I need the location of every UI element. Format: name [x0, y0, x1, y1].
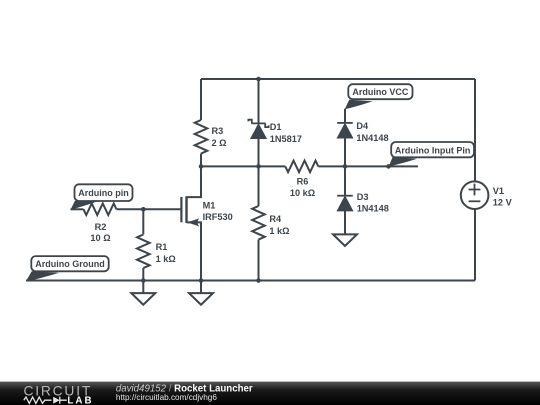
- svg-text:R6: R6: [297, 176, 309, 186]
- wire left rail top (R3 top lead): [200, 79, 202, 120]
- wire right rail top: [474, 79, 476, 181]
- svg-text:1N4148: 1N4148: [357, 204, 389, 214]
- junction dot M1 source bottom: [199, 278, 204, 283]
- CircuitLab logo diode triangle: [53, 397, 60, 404]
- wire D3 to ground: [344, 211, 346, 235]
- junction dot gate row: [141, 207, 146, 212]
- junction dot D3 D4 middle: [343, 164, 348, 169]
- resistor R3: [195, 120, 208, 154]
- CircuitLab logo resistor zigzag and diode: [24, 397, 67, 404]
- junction dot input pin flag: [386, 164, 391, 169]
- net flag Arduino Input Pin: [389, 142, 474, 166]
- wire D4 flag lead: [344, 109, 346, 123]
- resistor R6: [285, 161, 318, 173]
- voltage source V1 minus sign: [469, 200, 481, 202]
- svg-text:1N5817: 1N5817: [270, 134, 302, 144]
- diode D1 schottky cathode bar: [248, 120, 268, 127]
- wire R4 bottom lead: [258, 240, 260, 281]
- junction dot R1 bottom: [141, 278, 146, 283]
- svg-text:Arduino pin: Arduino pin: [78, 188, 129, 198]
- wire right rail bottom: [474, 209, 476, 281]
- svg-text:IRF530: IRF530: [203, 212, 233, 222]
- transistor M1 channel bar: [185, 196, 187, 223]
- svg-text:R1: R1: [156, 242, 168, 252]
- wire R1 top lead: [142, 209, 144, 234]
- svg-text:1 kΩ: 1 kΩ: [156, 254, 176, 264]
- diode D3 cathode bar: [337, 195, 353, 197]
- ground symbol (M1 source): [189, 281, 213, 305]
- net flag Arduino VCC: [345, 84, 413, 109]
- svg-text:R2: R2: [95, 222, 107, 232]
- svg-text:D1: D1: [270, 122, 282, 132]
- wire M1 source to bottom: [187, 222, 202, 280]
- ground symbol (R1 branch): [131, 281, 155, 305]
- transistor Q M1 gate bar: [180, 197, 182, 222]
- wire middle row right of R6: [318, 165, 418, 167]
- wire D3 top lead: [344, 166, 346, 195]
- wire R4 top lead: [258, 166, 260, 206]
- svg-text:D3: D3: [357, 192, 369, 202]
- footer bar: [0, 382, 540, 405]
- wire gate row right of R2: [117, 208, 182, 210]
- junction dot R4 bottom: [256, 278, 261, 283]
- transistor M1 source arrow: [187, 218, 199, 226]
- svg-text:10 kΩ: 10 kΩ: [290, 188, 315, 198]
- wire D1 bottom lead: [258, 139, 260, 167]
- svg-text:M1: M1: [203, 200, 216, 210]
- svg-text:Arduino Ground: Arduino Ground: [35, 259, 105, 269]
- resistor R4: [252, 206, 265, 240]
- diode D1 triangle: [251, 125, 266, 139]
- svg-text:1N4148: 1N4148: [356, 133, 388, 143]
- net flag Arduino pin: [71, 184, 133, 210]
- wire left rail to M1 drain: [187, 166, 202, 197]
- svg-text:LAB: LAB: [67, 395, 93, 405]
- junction dot D1 top: [256, 77, 261, 82]
- diode D4 cathode bar: [337, 122, 353, 124]
- svg-text:R4: R4: [269, 214, 282, 224]
- junction dot R3 bottom: [199, 164, 204, 169]
- wire D4 to middle row: [344, 138, 346, 166]
- svg-text:10 Ω: 10 Ω: [90, 233, 110, 243]
- svg-text:http://circuitlab.com/cdjvhg6: http://circuitlab.com/cdjvhg6: [116, 393, 217, 402]
- svg-text:R3: R3: [212, 126, 224, 136]
- wire D1 top lead: [258, 79, 260, 123]
- voltage source V1 circle: [461, 181, 489, 209]
- svg-text:D4: D4: [356, 121, 369, 131]
- wire R3 bottom lead: [200, 154, 202, 167]
- svg-text:Arduino Input Pin: Arduino Input Pin: [395, 145, 471, 155]
- junction dot D1 bottom: [256, 164, 261, 169]
- svg-text:12 V: 12 V: [493, 197, 513, 207]
- svg-text:V1: V1: [493, 186, 504, 196]
- voltage source V1 plus sign: [469, 184, 481, 196]
- wire bottom rail: [26, 280, 475, 282]
- resistor R2: [84, 204, 117, 216]
- wire top rail: [201, 78, 475, 80]
- wire gate row: [71, 208, 84, 210]
- svg-text:Arduino VCC: Arduino VCC: [352, 87, 408, 97]
- svg-text:1 kΩ: 1 kΩ: [269, 226, 289, 236]
- diode D3 triangle: [338, 197, 353, 211]
- wire R1 bottom lead: [142, 268, 144, 280]
- wire middle row: [201, 165, 285, 167]
- net flag Arduino Ground: [26, 256, 109, 281]
- diode D4 triangle: [338, 124, 353, 138]
- resistor R1: [137, 235, 150, 269]
- svg-text:2 Ω: 2 Ω: [212, 138, 227, 148]
- ground symbol (D3 branch): [333, 234, 357, 246]
